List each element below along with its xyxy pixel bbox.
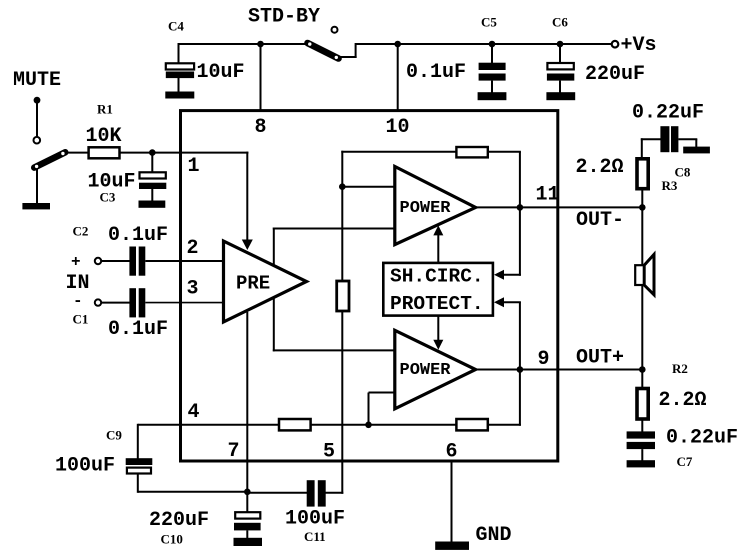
ground MUTE	[22, 203, 50, 209]
wire branch to POWER1 input	[342, 186, 396, 188]
wire C1 to pin 3	[145, 302, 223, 304]
wire R1 to pin 1	[120, 152, 249, 154]
wire pin 10	[397, 44, 399, 110]
wire pin1 into PRE with arrow	[246, 152, 248, 240]
resistor R2 stem top	[641, 370, 643, 390]
svg-text:C2: C2	[73, 224, 89, 239]
switch SW2 STD-BY open contact	[332, 27, 338, 33]
wire pin 7 vertical	[246, 312, 248, 492]
node pin4 net junction	[365, 422, 372, 429]
svg-text:3: 3	[187, 278, 199, 301]
capacitor C6 stem	[559, 44, 561, 64]
ground C8	[683, 147, 710, 154]
wire pin 8	[260, 44, 262, 110]
capacitor C9 stem bottom	[137, 474, 139, 493]
node pin7/C11 junction	[244, 489, 251, 496]
wire arrow into protection top	[503, 274, 521, 276]
svg-text:220uF: 220uF	[585, 63, 645, 86]
ground C4	[165, 92, 194, 99]
capacitor C9 stem top	[137, 424, 139, 459]
wire C8 to ground	[678, 138, 697, 140]
switch SW1 MUTE lever	[34, 152, 65, 167]
svg-text:C6: C6	[552, 15, 568, 30]
ground C10	[234, 538, 263, 546]
svg-text:C3: C3	[100, 190, 116, 205]
speaker LS1	[635, 265, 644, 285]
resistor feedback top	[456, 147, 487, 157]
node C3 junction	[149, 149, 156, 156]
svg-text:220uF: 220uF	[149, 509, 209, 532]
svg-text:OUT+: OUT+	[576, 347, 624, 370]
wire protection lower input	[494, 297, 504, 307]
capacitor C5 stem	[491, 44, 493, 64]
node pin8 junction	[257, 41, 264, 48]
capacitor C6	[547, 63, 573, 69]
wire IN+ to C2	[101, 260, 130, 262]
capacitor C8	[660, 126, 669, 152]
resistor R3 stem top	[641, 138, 643, 160]
wire R3 to C8	[641, 138, 662, 140]
node out+ feedback junction	[517, 366, 524, 373]
wire arrow protection to POWER2	[437, 316, 439, 342]
node feedback/out- junction	[517, 204, 524, 211]
svg-text:5: 5	[323, 441, 335, 464]
wire STD-BY switch output jog	[336, 56, 357, 58]
svg-text:C4: C4	[168, 19, 184, 34]
wire POWER1 output pin 11 to OUT-	[476, 206, 643, 208]
node OUT+ junction	[639, 366, 646, 373]
wire feedback top right	[488, 151, 521, 153]
svg-text:POWER: POWER	[400, 199, 452, 218]
wire POWER2 output pin 9 to OUT+	[476, 369, 643, 371]
capacitor C3 stem	[151, 153, 153, 174]
node C6 junction	[557, 41, 564, 48]
svg-text:C1: C1	[73, 312, 89, 327]
wire C9 to pin7 row	[138, 491, 248, 493]
svg-text:100uF: 100uF	[285, 507, 345, 530]
ground C3	[139, 201, 166, 208]
wire POWER2 lower input	[369, 392, 395, 394]
node OUT- junction	[639, 204, 646, 211]
ground C7	[627, 460, 655, 467]
svg-text:10K: 10K	[86, 125, 122, 148]
svg-text:STD-BY: STD-BY	[248, 6, 320, 29]
node PRE out branch	[339, 183, 346, 190]
capacitor C9	[126, 458, 153, 465]
wire pin4 right corner	[488, 424, 521, 426]
svg-text:11: 11	[536, 184, 560, 207]
svg-text:0.1uF: 0.1uF	[108, 318, 168, 341]
svg-text:0.1uF: 0.1uF	[108, 224, 168, 247]
svg-text:4: 4	[188, 401, 200, 424]
svg-text:1: 1	[188, 155, 200, 178]
ground C5	[478, 92, 507, 100]
resistor R1	[89, 147, 120, 158]
svg-text:OUT-: OUT-	[576, 209, 624, 232]
svg-text:R1: R1	[97, 102, 113, 117]
svg-text:R2: R2	[672, 361, 688, 376]
capacitor C10 stem	[246, 492, 248, 513]
ground C6	[546, 92, 575, 100]
capacitor C4	[166, 63, 194, 69]
svg-text:8: 8	[255, 116, 267, 139]
svg-text:0.22uF: 0.22uF	[666, 427, 738, 450]
wire pin 5 tail	[341, 460, 343, 494]
resistor R2 stem bottom	[641, 418, 643, 432]
svg-text:GND: GND	[476, 524, 512, 547]
terminal +Vs	[612, 41, 619, 48]
capacitor C5	[479, 63, 506, 70]
node pin10 junction	[394, 41, 401, 48]
wire IN- to C1	[101, 302, 130, 304]
wire C2 to pin 2	[145, 260, 223, 262]
svg-text:0.1uF: 0.1uF	[406, 61, 466, 84]
op-amp POWER1	[395, 167, 476, 245]
svg-text:9: 9	[538, 348, 550, 371]
wire OUT- to speaker	[641, 207, 643, 266]
wire pin4 middle	[311, 424, 458, 426]
resistor R2	[637, 389, 648, 420]
capacitor C10	[235, 512, 260, 518]
wire MUTE lever to ground	[36, 169, 38, 204]
svg-text:C7: C7	[677, 454, 693, 469]
svg-text:C8: C8	[675, 165, 691, 180]
svg-text:C5: C5	[481, 15, 497, 30]
svg-text:C9: C9	[106, 428, 122, 443]
svg-text:PRE: PRE	[236, 273, 270, 295]
svg-text:PROTECT.: PROTECT.	[390, 293, 484, 315]
resistor R3 stem bottom	[641, 190, 643, 208]
wire pin 4 row	[138, 424, 280, 426]
capacitor C1	[129, 288, 136, 317]
IC box U1	[181, 111, 558, 461]
wire node B vertical (pin2 net behind PRE)	[273, 228, 275, 352]
capacitor C4 stem	[178, 43, 180, 65]
svg-text:+Vs: +Vs	[621, 34, 657, 57]
svg-text:0.22uF: 0.22uF	[632, 102, 704, 125]
wire switch to R1	[66, 152, 89, 154]
ground GND	[435, 542, 469, 550]
node C5 junction	[489, 41, 496, 48]
svg-text:7: 7	[228, 440, 240, 463]
wire arrow protection to POWER1	[437, 234, 439, 262]
svg-text:R3: R3	[662, 178, 678, 193]
capacitor C11	[307, 480, 315, 506]
svg-text:10: 10	[386, 116, 410, 139]
svg-text:2.2Ω: 2.2Ω	[576, 156, 624, 179]
op-amp PRE	[224, 241, 307, 322]
svg-text:SH.CIRC.: SH.CIRC.	[390, 266, 484, 288]
svg-text:2: 2	[187, 237, 199, 260]
svg-text:100uF: 100uF	[55, 455, 115, 478]
svg-text:-: -	[73, 292, 83, 310]
wire upper input to POWER1	[273, 228, 396, 230]
resistor internal vertical	[337, 281, 349, 311]
switch SW1 MUTE contacts	[34, 97, 41, 104]
wire speaker to OUT+	[641, 285, 643, 370]
protection block	[383, 263, 493, 316]
svg-text:2.2Ω: 2.2Ω	[659, 389, 707, 412]
wire +Vs top rail	[179, 43, 312, 45]
capacitor C2	[129, 247, 136, 276]
resistor pin4 left	[279, 419, 311, 430]
svg-text:C11: C11	[304, 529, 326, 544]
wire C11 to pin7 junction	[246, 492, 307, 494]
svg-text:C10: C10	[161, 532, 183, 547]
op-amp POWER2	[395, 330, 476, 409]
resistor R3	[637, 159, 648, 189]
terminal IN-	[95, 299, 101, 305]
wire pin5 center vertical	[341, 151, 343, 282]
svg-text:+: +	[71, 253, 81, 271]
wire pin 6 to ground	[451, 460, 453, 542]
resistor pin4 right (feedback bottom)	[456, 419, 487, 430]
wire feedback top	[341, 151, 457, 153]
switch SW2 STD-BY lever	[308, 43, 339, 59]
terminal IN+	[95, 258, 101, 264]
svg-text:10uF: 10uF	[197, 61, 245, 84]
svg-text:MUTE: MUTE	[13, 69, 61, 92]
capacitor C7	[627, 431, 655, 438]
wire lower input to POWER2	[273, 349, 396, 351]
svg-text:POWER: POWER	[400, 361, 452, 380]
capacitor C3	[140, 172, 166, 178]
